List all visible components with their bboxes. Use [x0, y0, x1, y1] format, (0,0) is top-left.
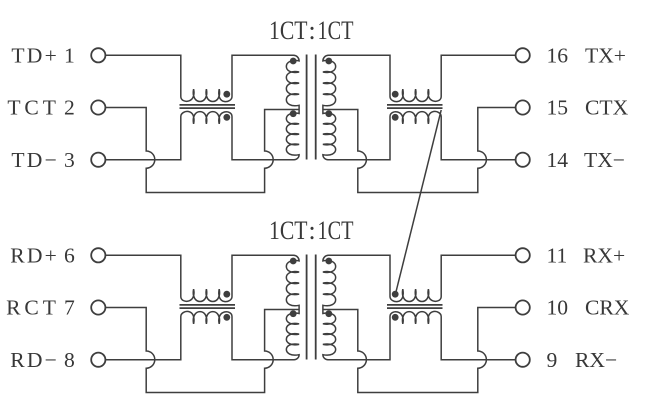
svg-text:1: 1 — [64, 44, 75, 68]
svg-text:1CT: 1CT — [318, 215, 354, 245]
svg-text:TD−: TD− — [11, 148, 59, 172]
svg-text:1CT: 1CT — [318, 15, 354, 45]
svg-text:3: 3 — [64, 148, 75, 172]
svg-text:7: 7 — [64, 296, 75, 320]
svg-text:10: 10 — [547, 296, 569, 320]
svg-text:TX+: TX+ — [585, 44, 626, 68]
svg-text:CRX: CRX — [585, 296, 630, 320]
svg-text::: : — [308, 215, 315, 245]
svg-text:RD−: RD− — [10, 348, 59, 372]
svg-text:14: 14 — [547, 148, 569, 172]
svg-text:8: 8 — [64, 348, 75, 372]
svg-text:15: 15 — [547, 96, 569, 120]
svg-text:6: 6 — [64, 244, 75, 268]
svg-text:TCT: TCT — [7, 96, 59, 120]
svg-text:16: 16 — [547, 44, 569, 68]
svg-text:RD+: RD+ — [10, 244, 59, 268]
svg-text:CTX: CTX — [585, 96, 629, 120]
svg-text:1CT: 1CT — [269, 215, 308, 245]
svg-text:TD+: TD+ — [11, 44, 59, 68]
svg-text::: : — [308, 15, 315, 45]
svg-text:11: 11 — [547, 244, 568, 268]
svg-text:1CT: 1CT — [269, 15, 308, 45]
svg-text:RX−: RX− — [575, 348, 617, 372]
svg-text:9: 9 — [547, 348, 558, 372]
svg-text:RCT: RCT — [6, 296, 60, 320]
svg-text:RX+: RX+ — [583, 244, 625, 268]
svg-text:TX−: TX− — [584, 148, 625, 172]
svg-text:2: 2 — [64, 96, 75, 120]
